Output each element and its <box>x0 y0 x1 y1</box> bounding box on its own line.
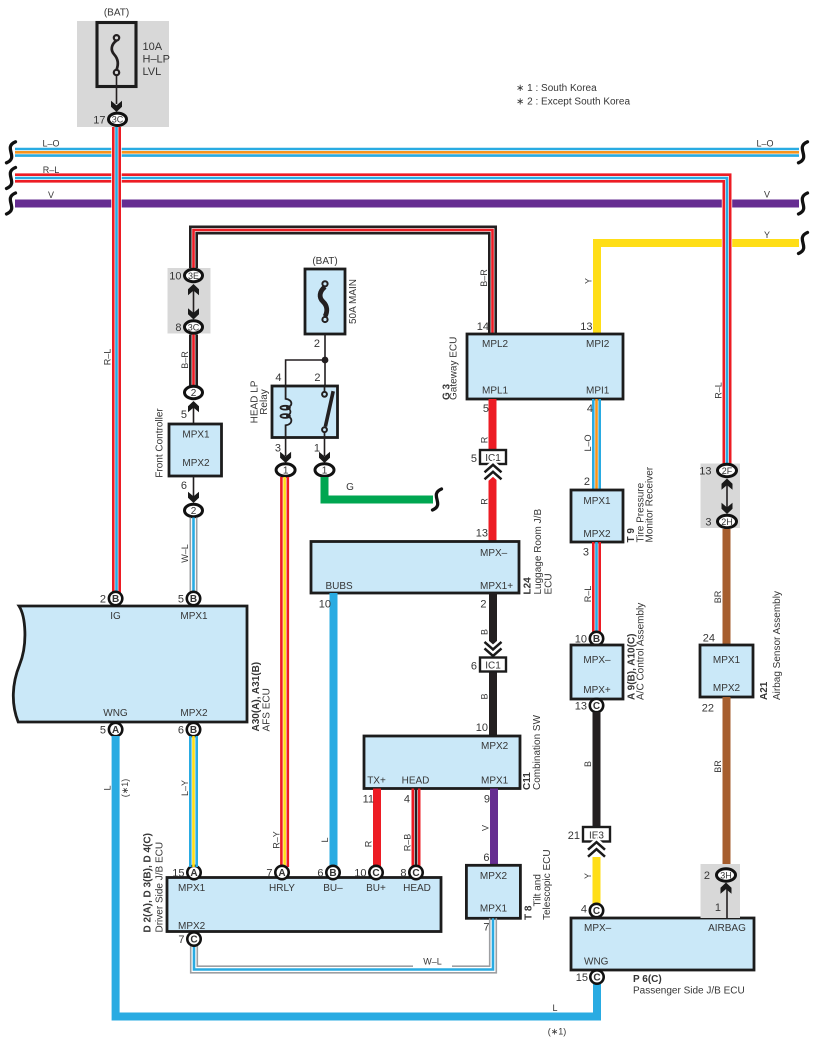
svg-text:13: 13 <box>575 701 587 713</box>
svg-text:R: R <box>480 436 490 443</box>
connector IC1 upper (pin 5) <box>480 450 506 464</box>
svg-text:A: A <box>278 868 285 879</box>
wire B from AC MPX+ to IE3 <box>593 712 601 827</box>
wire W-L from driver MPX2 to tilt MPX1 <box>191 918 497 973</box>
svg-text:1: 1 <box>322 465 328 476</box>
svg-text:3E: 3E <box>188 271 199 281</box>
svg-text:MPX–: MPX– <box>584 923 612 934</box>
connector oval 3E (pin 10) <box>185 269 203 281</box>
svg-text:13: 13 <box>580 321 592 333</box>
svg-text:2: 2 <box>191 506 197 517</box>
svg-text:2F: 2F <box>722 466 733 476</box>
svg-text:V: V <box>764 190 770 200</box>
svg-text:R–L: R–L <box>103 349 113 366</box>
svg-text:MPI2: MPI2 <box>586 339 610 350</box>
pin circle C 8 HEAD <box>409 866 422 879</box>
svg-text:17: 17 <box>93 115 105 127</box>
svg-text:6: 6 <box>181 480 187 492</box>
chevron arrows below IC1 upper <box>485 465 502 480</box>
pin circle C 4 passenger MPX- <box>590 904 603 917</box>
wire B-R from 3C to connector 2 <box>190 335 196 387</box>
svg-text:L: L <box>103 785 113 790</box>
junction block shading for fuse 10A <box>77 21 169 127</box>
svg-text:2: 2 <box>314 372 320 384</box>
svg-text:24: 24 <box>703 633 715 645</box>
svg-text:Front Controller: Front Controller <box>155 408 166 478</box>
svg-text:MPX2: MPX2 <box>182 458 210 469</box>
svg-text:(∗1): (∗1) <box>120 779 130 798</box>
svg-text:MPX1: MPX1 <box>180 611 208 622</box>
pin circle A 15 MPX1 <box>187 866 200 879</box>
arrow down into oval 2 lower <box>188 492 199 503</box>
wire relay pin1 to oval 1 <box>324 438 326 457</box>
wire 3H to airbag pin 1 <box>726 886 728 918</box>
svg-text:BR: BR <box>713 590 723 603</box>
svg-text:1: 1 <box>715 902 721 914</box>
arrow down above 2H <box>722 503 733 514</box>
svg-text:C: C <box>593 906 600 917</box>
svg-text:2: 2 <box>480 599 486 611</box>
svg-text:(BAT): (BAT) <box>312 256 337 267</box>
svg-text:C: C <box>412 868 419 879</box>
svg-text:4: 4 <box>587 403 593 415</box>
svg-text:9: 9 <box>484 794 490 806</box>
svg-text:A: A <box>190 868 197 879</box>
svg-text:C: C <box>372 868 379 879</box>
svg-text:MPX1: MPX1 <box>480 904 508 915</box>
svg-text:5: 5 <box>181 409 187 421</box>
svg-text:MPX–: MPX– <box>480 548 508 559</box>
pin circle C 10 BU+ <box>369 866 382 879</box>
pin circle A 7 HRLY <box>275 866 288 879</box>
wire branch to relay pin 4 <box>286 360 325 386</box>
svg-text:LVL: LVL <box>143 66 162 78</box>
svg-text:W–L: W–L <box>180 544 190 563</box>
pin circle C 13 AC MPX+ <box>590 699 603 712</box>
wire L long from WNG to passenger WNG <box>112 736 120 1021</box>
wire BR from airbag MPX2 to 3H <box>723 697 731 869</box>
node R-L left continuation squiggle <box>7 168 16 189</box>
A/C control assembly box <box>571 645 623 699</box>
AFS ECU box with torn left edge <box>13 606 247 722</box>
connector oval 2F (pin 13) <box>718 464 737 476</box>
svg-text:3H: 3H <box>720 870 732 880</box>
wire bus R-L horizontal with corner down to 2F <box>15 175 730 464</box>
luggage room J/B ECU box <box>311 542 519 594</box>
wire between 3E and 3C <box>193 286 195 317</box>
wire relay pin3 to oval 1 <box>285 438 287 457</box>
svg-text:10: 10 <box>476 722 488 734</box>
pin circle B 2 IG <box>109 592 122 605</box>
svg-text:(∗1): (∗1) <box>548 1027 567 1037</box>
pin circle C 15 passenger WNG <box>590 970 603 983</box>
arrow into oval 1 left <box>280 452 291 463</box>
wire G ground from oval 1 <box>325 477 434 500</box>
svg-text:MPX1: MPX1 <box>583 496 611 507</box>
airbag sensor assembly box <box>700 645 753 697</box>
svg-text:4: 4 <box>581 904 587 916</box>
svg-text:4: 4 <box>404 794 410 806</box>
svg-text:8: 8 <box>400 868 406 880</box>
svg-text:MPX2: MPX2 <box>180 708 208 719</box>
node G continuation squiggle <box>433 489 442 510</box>
connector oval 1 left <box>276 464 295 476</box>
wire between 2F and 2H <box>726 480 728 512</box>
svg-text:∗ 1 : South Korea: ∗ 1 : South Korea <box>516 83 597 94</box>
svg-text:L–O: L–O <box>583 434 593 451</box>
svg-text:2: 2 <box>100 594 106 606</box>
svg-text:B: B <box>112 594 119 605</box>
gateway ECU box <box>467 334 623 399</box>
svg-text:Luggage Room J/B: Luggage Room J/B <box>533 509 544 595</box>
wire L from BUBS to BU- <box>330 593 338 867</box>
svg-text:B: B <box>190 594 197 605</box>
svg-text:H–LP: H–LP <box>143 54 171 66</box>
svg-text:4: 4 <box>275 372 281 384</box>
wire R from TX+ to BU+ <box>373 789 381 868</box>
svg-text:7: 7 <box>483 922 489 934</box>
svg-text:3C: 3C <box>112 115 124 125</box>
node Y right continuation squiggle <box>799 233 808 254</box>
svg-text:AIRBAG: AIRBAG <box>708 923 746 934</box>
svg-text:L–Y: L–Y <box>180 780 190 796</box>
svg-text:MPL2: MPL2 <box>482 339 509 350</box>
connector IE3 (pin 21) <box>583 827 610 842</box>
svg-text:15: 15 <box>576 972 588 984</box>
junction block shading 3E/3C <box>168 268 211 334</box>
pin circle B 10 AC MPX- <box>590 632 603 645</box>
arrow into 3C <box>111 101 122 112</box>
svg-text:MPX2: MPX2 <box>713 683 741 694</box>
node L-O right continuation squiggle <box>799 142 808 163</box>
svg-text:2H: 2H <box>721 517 733 527</box>
svg-text:C: C <box>593 701 600 712</box>
pin circle B 6 BU- <box>326 866 339 879</box>
tilt and telescopic ECU box <box>466 865 520 918</box>
arrow into oval 1 right <box>319 452 330 463</box>
svg-text:7: 7 <box>266 868 272 880</box>
svg-text:6: 6 <box>483 852 489 864</box>
svg-text:B: B <box>480 629 490 635</box>
arrow up below 3E <box>188 284 199 295</box>
svg-text:2: 2 <box>704 870 710 882</box>
svg-text:WNG: WNG <box>584 957 609 968</box>
driver side J/B ECU box <box>167 878 441 932</box>
node V right continuation squiggle <box>799 193 808 214</box>
fuse 50A MAIN box <box>305 269 345 334</box>
svg-text:TX+: TX+ <box>367 776 386 787</box>
arrow up into oval 2 <box>188 401 199 412</box>
svg-text:C: C <box>593 973 600 984</box>
connector oval 2H (pin 3) <box>718 515 737 527</box>
wire B from MPX1+ to combination MPX2 <box>489 593 497 736</box>
svg-text:L: L <box>320 837 330 842</box>
svg-text:3: 3 <box>705 517 711 529</box>
svg-text:A21: A21 <box>759 681 770 700</box>
front controller box <box>169 424 222 476</box>
svg-text:D 2(A), D 3(B), D 4(C): D 2(A), D 3(B), D 4(C) <box>143 833 154 932</box>
svg-text:MPX1: MPX1 <box>481 776 509 787</box>
svg-text:A: A <box>112 725 119 736</box>
junction node dot <box>322 357 329 364</box>
wire R-L vertical from 3C to AFS IG <box>113 127 119 593</box>
svg-text:B: B <box>593 634 600 645</box>
svg-text:3: 3 <box>275 443 281 455</box>
svg-text:R–Y: R–Y <box>272 831 282 849</box>
svg-text:3: 3 <box>583 547 589 559</box>
svg-text:G: G <box>346 482 354 493</box>
label wire W-L horizontal <box>413 955 452 968</box>
svg-text:MPX+: MPX+ <box>583 685 611 696</box>
wire bus L-O horizontal <box>15 149 799 156</box>
fuse 50A element symbol <box>320 281 327 322</box>
svg-text:10: 10 <box>354 868 366 880</box>
svg-text:5: 5 <box>100 725 106 737</box>
svg-text:1: 1 <box>283 465 289 476</box>
svg-text:P 6(C): P 6(C) <box>633 974 662 985</box>
svg-text:B: B <box>583 761 593 767</box>
svg-text:R–B: R–B <box>403 834 413 852</box>
wire bus V horizontal <box>15 200 799 208</box>
svg-text:Y: Y <box>584 278 594 284</box>
svg-text:BU–: BU– <box>323 883 343 894</box>
svg-text:Telescopic ECU: Telescopic ECU <box>542 849 553 920</box>
svg-text:V: V <box>481 825 491 831</box>
connector oval 3C (pin 17) <box>109 113 127 125</box>
svg-text:BU+: BU+ <box>366 883 386 894</box>
svg-text:14: 14 <box>477 321 489 333</box>
svg-text:MPX1+: MPX1+ <box>480 581 513 592</box>
svg-text:Passenger Side J/B ECU: Passenger Side J/B ECU <box>633 986 745 997</box>
svg-text:11: 11 <box>363 794 374 806</box>
svg-text:B: B <box>190 725 197 736</box>
svg-text:15: 15 <box>172 868 184 880</box>
node V left continuation squiggle <box>7 193 16 214</box>
svg-text:B: B <box>329 868 336 879</box>
svg-text:R: R <box>364 840 374 847</box>
svg-text:5: 5 <box>178 594 184 606</box>
svg-text:21: 21 <box>568 830 580 842</box>
svg-text:MPX1: MPX1 <box>182 430 210 441</box>
svg-text:5: 5 <box>471 453 477 465</box>
svg-text:Y: Y <box>583 873 593 879</box>
svg-text:HEAD: HEAD <box>402 776 430 787</box>
wire W-L from oval 2 to AFS MPX1 <box>190 518 196 593</box>
svg-text:MPX2: MPX2 <box>481 741 509 752</box>
svg-text:MPX2: MPX2 <box>480 871 508 882</box>
svg-text:AFS ECU: AFS ECU <box>262 688 273 731</box>
arrow up below 2F <box>722 479 733 490</box>
wire fuse 10A to connector 3C <box>116 75 118 104</box>
relay switch symbol <box>322 386 333 438</box>
wire front controller pin5 to oval 2 <box>193 403 195 424</box>
svg-text:MPL1: MPL1 <box>482 386 509 397</box>
chevron arrows below IE3 <box>588 842 605 857</box>
svg-text:B–R: B–R <box>180 351 190 369</box>
arrow up into 3H <box>721 883 732 894</box>
combination SW box <box>364 736 520 789</box>
svg-text:R–L: R–L <box>43 165 60 175</box>
wire B-R loop from 3E up over to Gateway MPL2 <box>190 227 495 334</box>
wire front controller pin6 to oval 2 lower <box>193 476 195 497</box>
chevron arrows above IC1 lower <box>485 642 502 656</box>
svg-text:Airbag Sensor Assembly: Airbag Sensor Assembly <box>772 591 783 700</box>
svg-text:6: 6 <box>178 725 184 737</box>
svg-text:C: C <box>190 935 197 946</box>
connector oval 1 right <box>315 464 334 476</box>
svg-text:22: 22 <box>702 703 714 715</box>
relay coil symbol <box>281 386 292 438</box>
wire bus Y horizontal with drop to MPI2 <box>597 243 799 334</box>
svg-text:MPX1: MPX1 <box>178 883 206 894</box>
svg-text:10: 10 <box>319 599 331 611</box>
svg-text:B–R: B–R <box>479 269 489 287</box>
fuse 10A H-LP LVL box <box>97 23 136 87</box>
svg-text:5: 5 <box>483 403 489 415</box>
svg-text:50A MAIN: 50A MAIN <box>348 279 359 324</box>
svg-text:MPX–: MPX– <box>583 655 611 666</box>
passenger side J/B ECU box <box>571 918 754 970</box>
wire R-L from T9 MPX2 to AC MPX- <box>593 542 599 632</box>
svg-text:10: 10 <box>169 271 181 283</box>
connector oval 2 upper <box>185 386 203 398</box>
wire 50A to relay pin 2 <box>324 334 326 386</box>
svg-text:HEAD: HEAD <box>403 883 431 894</box>
wire R from MPL1 to luggage MPX- <box>489 399 497 542</box>
svg-text:BUBS: BUBS <box>326 581 354 592</box>
svg-text:L–O: L–O <box>756 139 773 149</box>
svg-text:Monitor Receiver: Monitor Receiver <box>645 466 656 542</box>
svg-text:L: L <box>552 1003 557 1013</box>
svg-text:Y: Y <box>764 230 770 240</box>
svg-text:10A: 10A <box>143 41 163 53</box>
wire BR from 2H to airbag sensor MPX1 <box>723 529 731 645</box>
connector oval 3H (pin 2) <box>717 869 736 881</box>
svg-text:3C: 3C <box>188 322 200 332</box>
wire Y from IE3 to passenger MPX- <box>593 857 601 904</box>
svg-text:IC1: IC1 <box>485 661 501 672</box>
svg-text:Driver Side J/B ECU: Driver Side J/B ECU <box>155 842 166 933</box>
svg-text:MPX1: MPX1 <box>713 655 741 666</box>
relay HEAD LP box <box>272 386 338 438</box>
svg-text:Combination SW: Combination SW <box>532 714 543 790</box>
svg-text:R–L: R–L <box>583 586 593 603</box>
wire L-O from MPI1 to T9 MPX1 <box>593 399 599 490</box>
junction block shading 3H <box>701 864 741 918</box>
pin circle B 5 MPX1 <box>187 592 200 605</box>
svg-text:L24: L24 <box>523 577 534 595</box>
svg-text:MPX2: MPX2 <box>178 921 206 932</box>
svg-text:WNG: WNG <box>103 708 128 719</box>
svg-text:BR: BR <box>713 760 723 773</box>
svg-text:2: 2 <box>314 338 320 350</box>
connector oval 3C (pin 8) <box>185 321 203 333</box>
svg-text:B: B <box>480 693 490 699</box>
svg-text:2: 2 <box>191 388 197 399</box>
junction block shading 2F/2H <box>701 464 741 529</box>
wire R-B from HEAD to HEAD <box>413 789 419 868</box>
svg-text:7: 7 <box>178 934 184 946</box>
wire R-Y from oval 1 to HRLY <box>281 477 287 867</box>
svg-text:Relay: Relay <box>259 389 270 415</box>
pin circle B 6 MPX2 <box>187 723 200 736</box>
pin circle C 7 MPX2 <box>187 932 200 945</box>
fuse 10A element symbol <box>112 35 119 75</box>
svg-text:MPI1: MPI1 <box>586 386 610 397</box>
svg-text:A30(A), A31(B): A30(A), A31(B) <box>251 662 262 732</box>
svg-text:Gateway ECU: Gateway ECU <box>449 337 460 400</box>
svg-text:R: R <box>480 498 490 505</box>
pin circle A 5 WNG <box>109 723 122 736</box>
svg-text:IG: IG <box>110 611 121 622</box>
arrow down above 3C <box>188 308 199 319</box>
svg-text:ECU: ECU <box>544 573 555 594</box>
svg-text:13: 13 <box>699 466 711 478</box>
svg-text:2: 2 <box>584 476 590 488</box>
tire pressure monitor receiver box <box>571 490 623 542</box>
connector IC1 lower (pin 6) <box>480 658 506 672</box>
svg-text:L–O: L–O <box>42 139 59 149</box>
svg-text:R–L: R–L <box>714 382 724 399</box>
svg-text:6: 6 <box>317 868 323 880</box>
svg-text:HRLY: HRLY <box>269 883 295 894</box>
svg-text:W–L: W–L <box>423 957 442 967</box>
svg-text:A/C Control Assembly: A/C Control Assembly <box>636 603 647 700</box>
svg-text:6: 6 <box>471 661 477 673</box>
wire V from MPX1 to tilt MPX2 <box>490 789 498 866</box>
svg-text:8: 8 <box>175 322 181 334</box>
svg-text:13: 13 <box>476 528 488 540</box>
connector oval 2 lower <box>185 504 203 516</box>
svg-text:∗ 2 : Except South Korea: ∗ 2 : Except South Korea <box>516 97 630 108</box>
svg-text:(BAT): (BAT) <box>104 8 129 19</box>
svg-text:V: V <box>48 190 54 200</box>
wire L-Y from MPX2 to driver MPX1 <box>190 736 196 867</box>
svg-text:MPX2: MPX2 <box>583 529 611 540</box>
node L-O left continuation squiggle <box>7 142 16 163</box>
